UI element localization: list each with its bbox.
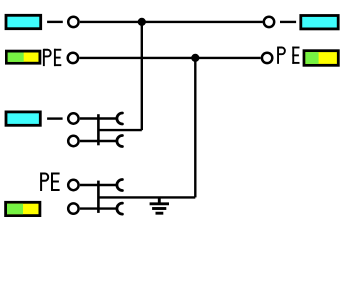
dash row1 right (280, 21, 296, 23)
feed line group3 (98, 129, 141, 131)
terminal marker box (green/yellow PE) row2 right (304, 51, 338, 66)
wire row1 (80, 21, 263, 23)
plug contact arc group3 lower (117, 136, 122, 147)
junction dot row1 (138, 18, 146, 26)
ground (150, 197, 169, 213)
wire group3 lower stub (80, 140, 117, 142)
terminal marker box (cyan) row1 left (6, 15, 41, 28)
terminal circle row1 left (68, 17, 78, 27)
vertical wire from row1 junction down to disconnect group 3 (141, 22, 143, 130)
terminal marker box (green/yellow PE) group4 (6, 202, 40, 215)
feed line group4 (98, 196, 195, 198)
terminal circle row1 right (264, 17, 274, 27)
wire group3 upper stub (80, 117, 117, 119)
label PE row2 left (44, 49, 61, 66)
vertical wire from row2 junction down to group4 feed (194, 58, 196, 198)
terminal circle group4 upper (68, 180, 78, 190)
terminal circle group3 upper (68, 113, 78, 123)
wire group4 lower stub (80, 207, 117, 209)
plug contact arc group4 upper (117, 180, 122, 191)
junction dot row2 (191, 54, 199, 62)
dash row1 left (47, 21, 63, 23)
terminal circle row2 right (262, 53, 272, 63)
terminal marker box (cyan) row1 right (301, 16, 338, 29)
terminal circle row2 left (68, 53, 78, 63)
label PE group4 (41, 173, 60, 192)
terminal circle group3 lower (68, 136, 78, 146)
wire group4 upper stub (80, 184, 117, 186)
label E row2 right (292, 47, 299, 64)
wire row2 (79, 57, 260, 59)
terminal marker box (cyan) group3 (6, 112, 40, 125)
common bar group4 (97, 181, 100, 213)
dash group3 (47, 117, 63, 119)
common bar group3 (97, 114, 100, 145)
label P row2 right (278, 47, 285, 64)
plug contact arc group3 upper (117, 113, 122, 124)
plug contact arc group4 lower (117, 203, 122, 214)
terminal circle group4 lower (68, 203, 78, 213)
terminal marker box (green/yellow PE) row2 left (6, 51, 40, 63)
